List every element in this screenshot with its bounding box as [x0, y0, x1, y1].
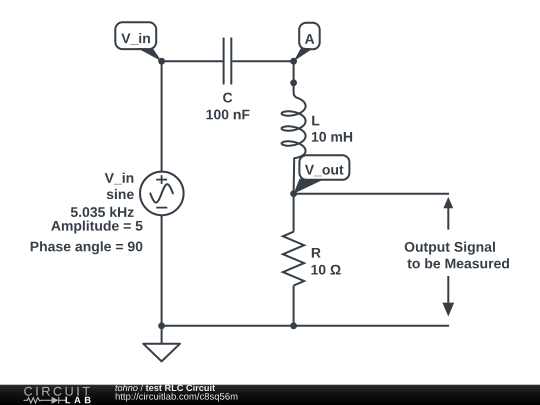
ground symbol	[143, 326, 180, 362]
flag V_in pointer	[137, 48, 162, 61]
flag A pointer	[294, 48, 313, 62]
footer bar background	[0, 385, 540, 405]
wire: left branch upper (V_in node to source top)	[161, 61, 163, 171]
flag V_out box	[299, 155, 349, 180]
wire: left branch lower (source bottom to bottom rail)	[161, 215, 163, 326]
wire: resistor bottom lead to bottom rail	[293, 286, 295, 326]
voltage source V1 frequency label: 5.035 kHz	[71, 207, 134, 217]
wire: top rail left segment (V_in node to capacitor)	[162, 60, 223, 62]
annotation arrow up	[443, 197, 453, 230]
flag V_out text	[305, 165, 344, 176]
capacitor C1 name label: C	[223, 93, 232, 103]
flag V_in text	[121, 33, 150, 45]
wire: node A down to inductor junction	[293, 61, 295, 83]
voltage source V1 phase label: Phase angle = 90	[31, 241, 143, 254]
node dot: V_out	[290, 190, 297, 197]
wire: top rail right segment (capacitor to node A)	[232, 60, 293, 62]
capacitor C1 left plate	[223, 38, 225, 85]
annotation text line 2: to be Measured	[407, 258, 509, 268]
flag A box	[299, 23, 320, 50]
voltage source V1 sine squiggle	[150, 184, 173, 202]
resistor R1 value label: 10 ohm	[311, 265, 340, 275]
footer url text: circuitlab.com/c8sq56m	[116, 393, 238, 402]
capacitor C1 right plate	[230, 38, 232, 85]
node dot: A	[290, 58, 297, 65]
node dot: V_in corner	[158, 58, 165, 65]
node dot: bottom-left ground	[158, 322, 165, 329]
footer logo doodle: resistor zigzag wire	[24, 397, 66, 404]
voltage source V1 minus sign	[156, 207, 167, 209]
footer title: tohno / test RLC Circuit	[115, 384, 215, 391]
wire: V_out node down to resistor top lead	[293, 194, 295, 232]
resistor R1 name label: R	[312, 248, 321, 258]
voltage source V1 name label: V_in	[105, 173, 134, 185]
node dot: bottom resistor	[290, 322, 297, 329]
annotation arrow down	[442, 276, 454, 317]
flag V_in box	[115, 22, 156, 49]
resistor R1 zigzag	[283, 232, 304, 286]
flag A text	[305, 34, 314, 44]
footer logo wordmark: CIRCUIT	[24, 387, 90, 396]
inductor L1 coil	[282, 83, 306, 194]
capacitor C1 value label: 100 nF	[207, 110, 250, 120]
voltage source V1 plus sign	[156, 175, 167, 184]
wire: V_out horizontal rail	[294, 193, 450, 195]
voltage source V1 amplitude label: Amplitude = 5	[51, 221, 142, 234]
voltage source V1 circle	[140, 172, 184, 216]
node dot: inductor top junction	[290, 79, 297, 86]
voltage source V1 type label: sine	[107, 189, 134, 199]
inductor L1 name label: L	[312, 116, 319, 126]
footer logo doodle: diode triangle	[52, 397, 59, 404]
footer logo wordmark: LAB	[66, 397, 91, 403]
flag V_out pointer	[294, 179, 323, 194]
inductor L1 value label: 10 mH	[312, 132, 352, 142]
annotation text line 1: Output Signal	[405, 242, 495, 255]
wire: bottom rail	[162, 325, 450, 327]
